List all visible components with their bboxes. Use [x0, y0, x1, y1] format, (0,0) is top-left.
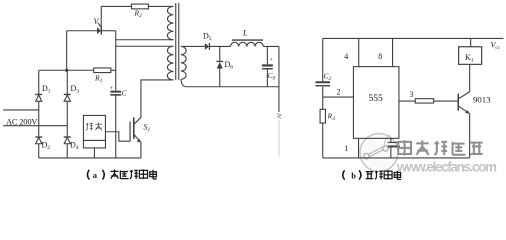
svg-text:S1: S1 — [144, 123, 151, 134]
diode D6 — [216, 46, 223, 86]
resistor R1 — [94, 68, 111, 73]
wire output bottom rail — [186, 86, 279, 88]
wire top rail with R1 — [39, 69, 94, 71]
wire AC upper input — [3, 109, 39, 111]
resistor R3 — [320, 109, 325, 123]
watermark brand text — [398, 140, 482, 155]
wire output break mark — [277, 114, 282, 119]
wire secondary bottom to rail — [181, 79, 187, 87]
wire L to output — [263, 45, 279, 47]
wire bus vertical — [115, 31, 117, 91]
svg-text:8: 8 — [378, 52, 382, 61]
wire gate from driver — [105, 132, 130, 141]
svg-text:C0: C0 — [268, 71, 276, 82]
relay K1 box — [459, 47, 482, 65]
svg-text:555: 555 — [369, 94, 384, 104]
resistor R2 — [131, 4, 148, 9]
wire pin3 — [399, 100, 415, 102]
IC 555 box — [353, 67, 399, 139]
svg-text:www.elecfans.com: www.elecfans.com — [396, 160, 497, 175]
wire primary upper bottom tap — [116, 39, 174, 41]
svg-text:AC 200V: AC 200V — [6, 117, 38, 127]
capacitor C2 — [315, 82, 330, 86]
wire D5 to L — [209, 45, 230, 47]
transformer secondary winding — [181, 46, 186, 79]
wire bottom rail — [39, 157, 141, 159]
diode D3 — [64, 94, 71, 101]
wire bridge left branch — [38, 70, 40, 94]
svg-text:R2: R2 — [134, 9, 143, 20]
inductor L — [230, 40, 263, 46]
svg-text:b: b — [351, 170, 356, 180]
diode D5 — [205, 43, 210, 50]
IGBT S1 — [130, 117, 141, 158]
wire pin2 — [323, 96, 354, 98]
wire driver ground tap — [93, 148, 95, 158]
wire AC lower input — [3, 125, 67, 127]
wire Vcc top rail — [323, 37, 504, 39]
diode D4 — [64, 137, 71, 144]
svg-text:C2: C2 — [324, 72, 332, 83]
caption (a) soft start circuit — [87, 170, 104, 180]
svg-text:R1: R1 — [94, 74, 103, 85]
svg-text:K1: K1 — [465, 53, 474, 64]
node junction dot — [65, 69, 68, 72]
wire left rail — [322, 38, 324, 81]
svg-text:D3: D3 — [71, 84, 80, 95]
svg-text:R3: R3 — [327, 112, 336, 123]
svg-text:D4: D4 — [70, 141, 79, 152]
svg-text:a: a — [93, 170, 98, 180]
transistor 9013 — [458, 64, 469, 158]
wire SCR cathode — [101, 30, 116, 32]
svg-text:L: L — [242, 29, 248, 38]
transformer primary lower winding — [167, 46, 173, 80]
svg-text:Vcc: Vcc — [491, 41, 501, 52]
svg-text:D2: D2 — [42, 141, 51, 152]
wire output positive lead — [278, 46, 280, 112]
svg-text:4: 4 — [344, 52, 348, 61]
label drive box text — [86, 123, 102, 131]
svg-text:1: 1 — [345, 144, 349, 153]
diode D1 — [35, 94, 42, 101]
wire gate top with R2 — [101, 5, 131, 7]
svg-text:D5: D5 — [203, 32, 212, 43]
wire bottom rail — [323, 157, 470, 159]
transformer T core — [175, 3, 177, 80]
svg-text:3: 3 — [410, 90, 414, 99]
wire primary lower top tap — [116, 45, 174, 47]
wire K1 top — [470, 38, 472, 46]
diode D2 — [35, 137, 42, 144]
capacitor C0 — [262, 46, 273, 86]
wire SCR anode riser — [66, 31, 68, 71]
wire bridge right branch — [66, 70, 68, 94]
transformer primary upper winding — [167, 6, 173, 39]
wire pin8 — [392, 38, 394, 66]
wire SCR anode — [67, 30, 97, 32]
wire base — [434, 100, 458, 102]
svg-text:+: + — [270, 58, 274, 64]
resistor base — [415, 99, 433, 103]
svg-text:+: + — [110, 86, 114, 92]
thyristor V — [97, 6, 101, 34]
watermark logo circle — [360, 134, 398, 172]
wire pin1 — [358, 138, 360, 158]
svg-text:2: 2 — [337, 88, 341, 97]
capacitor pin5 — [388, 138, 400, 158]
capacitor C — [110, 92, 121, 95]
svg-text:D6: D6 — [225, 60, 234, 71]
wire pin4 — [358, 38, 360, 66]
svg-text:C: C — [122, 89, 128, 98]
svg-text:9013: 9013 — [473, 94, 491, 104]
wire primary bottom to switch — [141, 80, 174, 118]
svg-text:D1: D1 — [42, 84, 51, 95]
wire secondary top to D5 — [181, 45, 205, 47]
driver box — [83, 115, 105, 148]
caption (b) delay circuit — [343, 170, 361, 179]
